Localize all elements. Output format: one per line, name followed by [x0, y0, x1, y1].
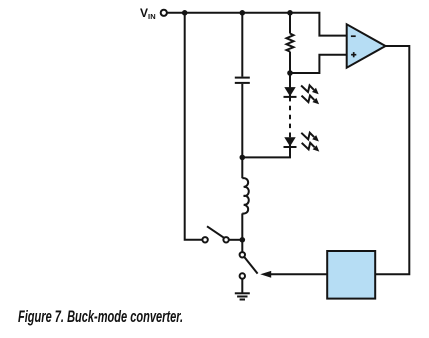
- op-amp minus label: [351, 35, 356, 37]
- caption: [18, 308, 183, 327]
- wire control box to arrow: [270, 273, 328, 275]
- switch S2 terminal bottom: [240, 273, 245, 278]
- node junction LED return: [240, 155, 246, 161]
- node junction switch: [240, 237, 246, 243]
- op-amp U1: [347, 24, 386, 67]
- inductor L1: [242, 178, 248, 213]
- wire top rail VIN to op-amp minus corner: [167, 13, 347, 36]
- wire inductor to switch junction: [241, 213, 243, 252]
- wire right column top to resistor: [289, 13, 291, 34]
- ground: [235, 293, 250, 299]
- wire dashed between LEDs: [289, 97, 291, 137]
- LED D2: [284, 137, 297, 147]
- node junction top-left: [182, 10, 188, 16]
- label VIN: [140, 6, 156, 21]
- switch S1 terminal right: [223, 237, 228, 242]
- control box: [327, 251, 375, 299]
- node junction top-right: [287, 10, 293, 16]
- wire LED D2 to middle column junction: [242, 147, 290, 157]
- light arrows for D2: [301, 133, 319, 152]
- wire middle column top to capacitor: [241, 13, 243, 77]
- arrowhead control to switch: [260, 271, 271, 278]
- capacitor C1: [235, 78, 250, 83]
- op-amp plus label: [351, 52, 356, 57]
- switch S2 arm: [244, 257, 257, 274]
- wire middle column capacitor to inductor: [241, 84, 243, 178]
- resistor R1: [287, 34, 294, 52]
- wire resistor to junction: [289, 52, 291, 73]
- LED D1: [284, 87, 297, 97]
- node junction top-middle: [240, 10, 246, 16]
- wire switch right terminal to junction: [229, 239, 243, 241]
- switch S1 arm: [207, 226, 224, 238]
- wire left column down to switch: [185, 13, 203, 240]
- wire junction to op-amp plus: [290, 55, 347, 73]
- switch S1 terminal left: [202, 237, 207, 242]
- node junction below resistor: [287, 70, 293, 76]
- wire to ground: [241, 279, 243, 294]
- switch S2 terminal top: [240, 252, 245, 257]
- wire junction to LED D1: [289, 73, 291, 87]
- wire op-amp output to control box: [375, 46, 409, 274]
- node VIN terminal: [161, 10, 167, 16]
- light arrows for D1: [301, 85, 319, 104]
